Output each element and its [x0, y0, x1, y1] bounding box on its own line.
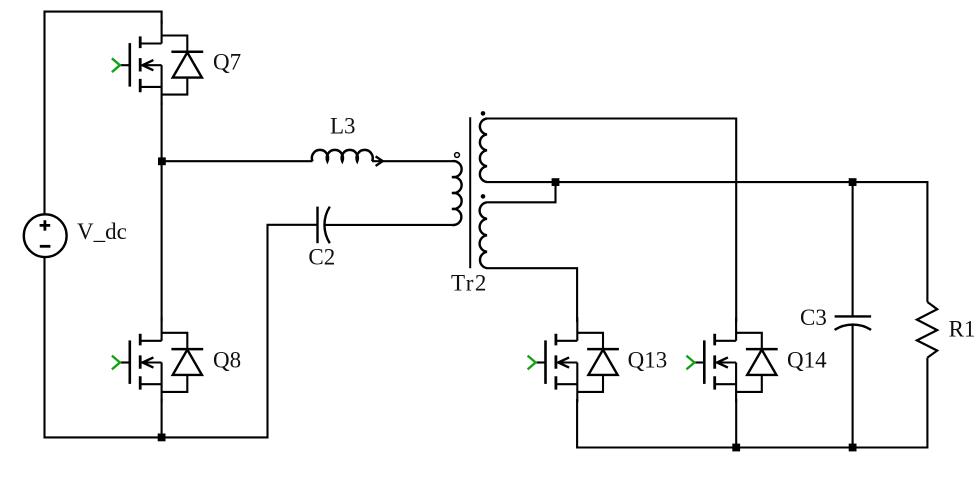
transformer secondary top phase dot [481, 111, 486, 116]
svg-text:Q14: Q14 [787, 347, 827, 372]
transistor Q14 [686, 317, 777, 402]
wire Q8 drain from node [161, 161, 163, 322]
wire C3 top branch [852, 182, 854, 316]
wire C3 bottom branch [852, 324, 854, 447]
svg-text:V_dc: V_dc [77, 219, 127, 244]
node junction C3 bottom on rail [849, 444, 857, 452]
wire Q14 source to rail [735, 399, 737, 448]
svg-text:Q13: Q13 [628, 347, 668, 372]
capacitor C2 left plate [316, 207, 318, 244]
transformer primary phase dot [455, 153, 460, 158]
capacitor C2 right curved plate [324, 207, 329, 244]
L3 arrow [376, 156, 383, 166]
svg-text:L3: L3 [330, 113, 356, 138]
transformer secondary top winding [480, 119, 487, 183]
node junction Q8 source on bottom rail [158, 434, 166, 442]
wire secondary bottom top-lead to junction [487, 182, 556, 202]
capacitor C3 top plate [835, 315, 872, 317]
voltage source V_dc circle [24, 214, 67, 257]
wire Q7 source to node [161, 102, 163, 161]
node junction at half-bridge midpoint [158, 157, 166, 165]
transistor Q8 [112, 317, 203, 402]
svg-text:C2: C2 [308, 244, 335, 269]
V_dc plus sign [40, 220, 51, 246]
wire secondary bottom lead to Q13 drain [487, 268, 577, 322]
resistor R1 zigzag [917, 302, 937, 358]
transformer primary winding [452, 161, 462, 225]
node junction Q14 source on rail [732, 444, 740, 452]
wire left rail lower + bottom left rail + C2 left branch [45, 225, 318, 438]
wire middle output rail to R1 top [487, 182, 927, 302]
inductor L3 [312, 150, 373, 161]
transformer secondary bottom phase dot [481, 194, 486, 199]
transformer secondary bottom winding [480, 202, 487, 268]
svg-text:Q7: Q7 [213, 50, 241, 75]
svg-text:Q8: Q8 [213, 348, 241, 373]
svg-text:R1: R1 [949, 317, 976, 342]
wire left rail upper + top rail + Q7 drain [45, 12, 162, 215]
svg-text:C3: C3 [800, 305, 827, 330]
transistor Q7 [112, 20, 203, 105]
svg-text:Tr2: Tr2 [451, 271, 488, 296]
V_dc minus sign [40, 245, 51, 248]
wire node to L3 [162, 160, 313, 162]
wire R1 bottom + bottom right rail + Q13 source [577, 358, 927, 448]
capacitor C3 bottom curved plate [835, 325, 872, 330]
node junction secondary centre tap [552, 178, 560, 186]
transformer core [469, 117, 471, 268]
wire L3 to transformer primary [372, 160, 452, 162]
transistor Q13 [528, 317, 619, 402]
wire C2 right to primary [325, 224, 452, 226]
wire secondary top lead to Q14 drain [487, 119, 736, 323]
wire Q8 source to bottom rail [161, 399, 163, 437]
node junction C3 top [849, 178, 857, 186]
